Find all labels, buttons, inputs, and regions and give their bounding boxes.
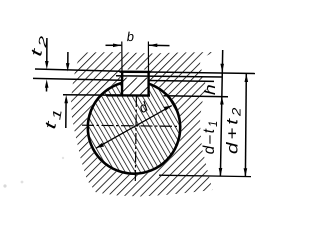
faint scan specks <box>3 184 6 187</box>
t2 dimension <box>46 38 48 63</box>
bore interior blanked <box>86 80 181 175</box>
vertical centerline <box>135 96 136 183</box>
shaft circle <box>88 81 180 173</box>
h and d-t1 shared dimension line <box>220 50 222 176</box>
d+t2 dimension <box>244 74 247 176</box>
L4: keyway bottom <box>63 94 107 96</box>
L3: bore line <box>33 78 121 80</box>
svg-text:b: b <box>126 29 134 44</box>
key interior hatch <box>123 78 148 95</box>
b dimension <box>106 44 122 46</box>
hub (hatched block) <box>71 52 214 197</box>
d diameter line <box>96 106 172 149</box>
bottom tangent line <box>159 175 251 176</box>
b extension lines <box>121 42 123 72</box>
svg-text:h: h <box>201 84 218 95</box>
key sides (thick) <box>121 72 124 96</box>
t1 dimension <box>67 52 69 65</box>
L2: key top line <box>116 76 223 77</box>
L1: keyway top line (hub) <box>35 69 120 71</box>
keyway notch (white) <box>122 70 149 96</box>
horizontal centerline <box>82 125 182 126</box>
shaft section hatch <box>85 79 183 176</box>
